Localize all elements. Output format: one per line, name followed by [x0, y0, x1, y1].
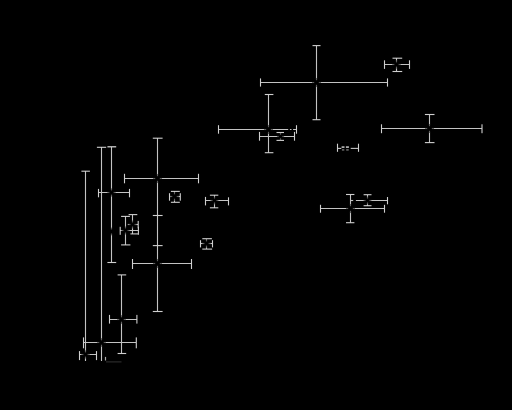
- node X1 center of T1: [312, 78, 320, 86]
- dimension line V5 (x=157.5, four bars): [157, 138, 159, 311]
- node X11 center at H3/V5: [153, 259, 161, 267]
- drill target T4 (small cross below T3): [260, 136, 295, 138]
- dimension H1 (upper-left cross horizontal): [125, 178, 199, 180]
- node X7 center of T7: [364, 197, 371, 204]
- drill target T5 (wide cross, right): [382, 128, 483, 130]
- node X12 center at H4/V4: [118, 316, 126, 324]
- drill target T7 (small cross right of T6): [351, 200, 354, 202]
- node X10 center at H2/V3: [108, 189, 116, 197]
- dimension H2 (small horizontal at y=192.5): [99, 192, 130, 194]
- drill target T10 (mini target G): [174, 191, 176, 202]
- wire notch on T3 horizontal b: [292, 129, 294, 131]
- node X13 center at H5/V2: [98, 339, 106, 347]
- node X15 center of T8: [129, 221, 136, 228]
- node X17 center of T10: [171, 193, 179, 201]
- node X8 dark mark on V3: [108, 228, 115, 235]
- extension line V1 (x=85.5): [85, 171, 87, 361]
- drill target T8 (cluster target M1): [132, 215, 134, 234]
- wire faint baseline at bottom: [106, 361, 122, 363]
- drill target T1 (large cross, top center): [316, 46, 318, 120]
- extension line V3 (x=111.5): [111, 147, 113, 263]
- drill target T12 (mini target O): [206, 239, 208, 249]
- dimension H4 (cross at y=319.5): [110, 319, 137, 321]
- drill target T11 (mini target N): [206, 200, 229, 202]
- dimension H6 (cross at y=354.5): [80, 354, 97, 356]
- wire notch on T3 horizontal a: [288, 129, 290, 131]
- node X2 center of T2: [393, 61, 401, 69]
- drill target T6 (cross, mid right): [350, 195, 352, 223]
- extension line V4 (x=121.5): [121, 275, 123, 354]
- node X3 center of T3: [264, 125, 272, 133]
- node X18 center of T11: [211, 197, 218, 204]
- node X19 center of T12: [203, 240, 211, 248]
- node X5 center of T5: [425, 124, 433, 132]
- node X4 center of T4: [277, 133, 284, 140]
- node X16 center of T9: [122, 227, 129, 234]
- dimension D1 with value label (center): [337, 144, 339, 152]
- dimension H3 (lower-left cross horizontal): [133, 263, 192, 265]
- node X14 center at H6/V1: [82, 351, 90, 359]
- tick small mark near V2 bottom: [105, 357, 107, 361]
- dimension H5 (cross at y=342.5): [84, 342, 137, 344]
- drill target T3 (cross, upper mid-left): [268, 95, 270, 153]
- extension line V2 (x=101.5): [101, 147, 103, 361]
- drill target T2 (small cross, top right): [385, 64, 410, 66]
- node X6 center of T6: [346, 204, 354, 212]
- drill target T9 (cluster target M2): [125, 216, 127, 245]
- node X9 center at H1/V5: [153, 174, 161, 182]
